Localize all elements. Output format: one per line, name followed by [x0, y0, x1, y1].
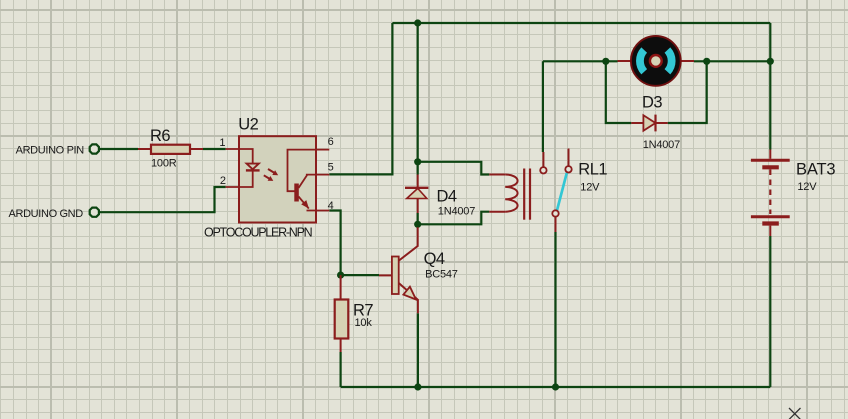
svg-text:U2: U2 — [238, 116, 258, 134]
svg-text:ARDUINO GND: ARDUINO GND — [9, 208, 84, 220]
svg-text:R7: R7 — [353, 302, 373, 320]
svg-text:2: 2 — [220, 175, 226, 187]
svg-text:D3: D3 — [642, 94, 662, 112]
svg-text:Q4: Q4 — [424, 250, 445, 268]
svg-text:R6: R6 — [150, 127, 170, 145]
svg-text:1N4007: 1N4007 — [438, 205, 475, 217]
svg-text:1N4007: 1N4007 — [643, 139, 680, 151]
svg-text:6: 6 — [328, 136, 334, 148]
svg-text:12V: 12V — [580, 181, 600, 193]
svg-text:RL1: RL1 — [578, 161, 607, 179]
svg-text:5: 5 — [328, 162, 334, 174]
svg-text:BAT3: BAT3 — [796, 160, 835, 178]
svg-text:12V: 12V — [797, 181, 817, 193]
svg-text:1: 1 — [219, 137, 225, 149]
svg-text:BC547: BC547 — [425, 268, 458, 280]
svg-text:100R: 100R — [151, 157, 177, 169]
svg-text:ARDUINO PIN: ARDUINO PIN — [16, 144, 85, 156]
svg-text:OPTOCOUPLER-NPN: OPTOCOUPLER-NPN — [204, 226, 313, 240]
svg-text:D4: D4 — [437, 187, 457, 205]
svg-text:4: 4 — [328, 200, 334, 212]
